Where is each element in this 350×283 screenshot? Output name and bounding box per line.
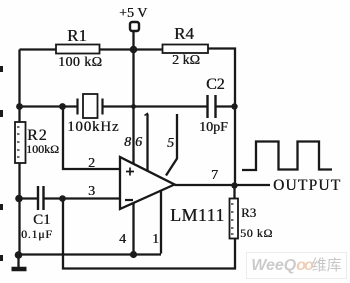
wire left rail upper segment [18,50,20,123]
+5V terminal square [130,22,139,31]
wire C2 node down to output node [234,107,236,186]
resistor R3 [230,199,239,239]
label OUTPUT [273,177,341,195]
resistor R4 [163,45,209,54]
pin 6 label [135,135,142,151]
label 10pF of C2 [199,120,228,136]
capacitor C1 plates [38,186,44,210]
wire crystal right lead [103,105,134,107]
wire bottom loop pin3 node to R3 bottom [63,199,235,269]
wire center vertical +5V down across crystal row [132,50,134,107]
pin 4 label [119,232,126,248]
wire R4 right and down to C2 node [208,49,235,107]
wire pin 3 row from left rail [20,197,38,199]
wire crystal row left lead [20,105,78,107]
wire pin 4 vertical [132,203,134,255]
crystal Y1 100kHz [78,94,103,118]
resistor R1 [56,45,100,54]
wire pin 8 vertical into op-amp [132,107,134,165]
op-amp minus input mark [125,199,133,201]
capacitor C2 plates [208,95,216,118]
label 100kHz of crystal [67,119,119,136]
label 50 kOhm of R3 [240,226,273,241]
ground [12,255,27,269]
label R3 [241,205,256,221]
wire output from op-amp [175,184,271,186]
wire pin 5 stub [166,114,177,176]
label 100 kOhm of R1 [58,55,102,71]
op-amp plus input mark [126,168,134,176]
wire C1 to pin 3 [45,197,121,199]
op-amp U1 LM111 triangle [120,157,175,209]
wire crystal row to C2 [134,105,208,107]
label C1 [33,212,51,229]
label +5V [119,6,147,22]
wire R3 top stub [233,186,235,199]
wire ground row [20,253,162,255]
pin 1 label [152,232,159,248]
wire top-left horizontal to R1 [20,48,57,50]
resistor R2 [15,122,26,163]
label 0.1uF of C1 [21,227,53,242]
pin 2 label [88,156,95,172]
wire +5V terminal to junction [132,31,134,50]
watermark WeeQoo [246,252,347,279]
label 2 kOhm of R4 [172,53,200,69]
label R4 [174,24,194,44]
label LM111 [170,205,225,226]
wire pin 6 stub [145,113,149,172]
square wave output symbol [242,142,332,171]
pin 7 label [211,168,218,184]
wire junction to R4 [134,48,163,50]
label C2 [206,76,225,94]
scan specks on left edge [0,66,3,261]
pin 5 label [167,136,174,152]
wire R1 to +5V junction [100,48,134,50]
node junction dots [15,46,238,259]
wire pin 2 branch from crystal row [63,107,120,170]
label R1 [67,26,87,46]
pin 3 label [88,184,95,200]
pin 8 label [124,135,131,151]
label R2 [27,127,48,145]
label 100kOhm of R2 [26,142,59,157]
wire left rail lower segment [18,163,20,255]
wire pin 1 vertical [160,191,162,254]
wire C2 to node [216,105,236,107]
